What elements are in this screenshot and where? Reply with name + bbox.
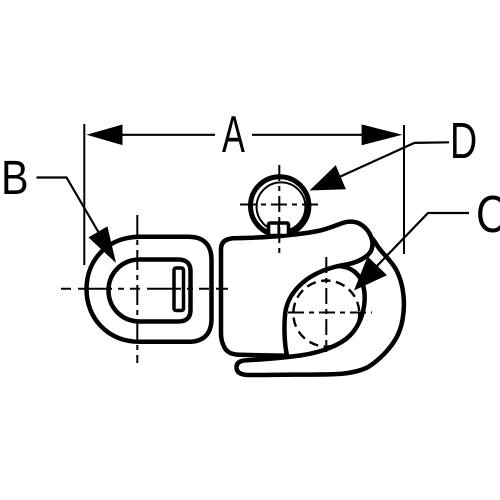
pull ring (top, behind body)	[251, 177, 309, 235]
arrowhead B	[88, 226, 116, 263]
arrowhead D	[310, 165, 346, 190]
centerline pin horizontal	[288, 312, 372, 314]
swivel body (middle, white fill covers hidden lines)	[221, 222, 372, 356]
extension line left	[83, 124, 85, 265]
swivel eye outer (left)	[87, 237, 212, 342]
centerline pin vertical	[325, 257, 327, 352]
eye inner slot	[109, 260, 191, 322]
centerline ring horizontal	[240, 204, 320, 206]
shackle bow (right hook)	[237, 227, 404, 375]
centerline eye horizontal	[61, 288, 228, 290]
extension line right	[403, 125, 405, 254]
svg-text:B: B	[1, 150, 29, 205]
leader B	[37, 178, 102, 237]
svg-text:A: A	[222, 106, 245, 164]
hidden pin dashed circle	[293, 281, 359, 347]
plunger middle bar	[277, 223, 280, 236]
arrowhead C	[354, 256, 387, 290]
arrowhead A right	[362, 124, 403, 145]
centerline ring vertical	[278, 165, 280, 258]
leader D	[330, 142, 449, 181]
svg-text:D: D	[450, 114, 477, 170]
arrowhead A left	[87, 125, 123, 146]
swivel post rectangle in slot	[174, 268, 184, 311]
svg-text:C: C	[476, 186, 500, 243]
centerline eye vertical	[136, 215, 138, 363]
dimension line A	[106, 134, 215, 136]
leader C	[375, 213, 469, 268]
plunger block under ring	[269, 223, 289, 236]
